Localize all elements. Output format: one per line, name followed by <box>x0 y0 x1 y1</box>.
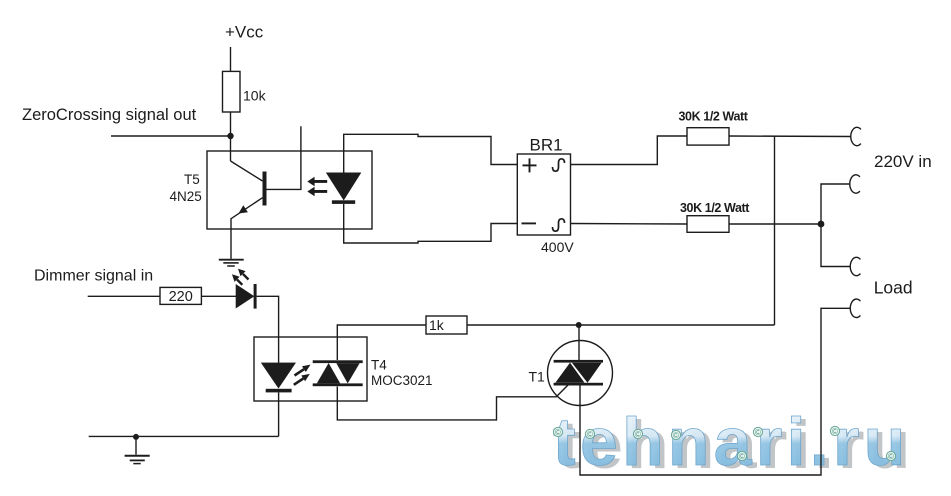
transistor T5 base lead <box>267 126 301 189</box>
bridge BR1 minus sign <box>522 222 537 224</box>
wire BR1 + output <box>571 136 688 165</box>
wire D1 to MOC led <box>257 296 279 363</box>
wire LED anode to bridge + <box>344 134 518 173</box>
wire ground stub <box>135 437 137 455</box>
resistor R 30K bottom body <box>687 216 729 233</box>
svg-text:©: © <box>587 430 593 439</box>
wire T1 gate <box>337 385 568 420</box>
terminal 220V N arc <box>850 175 860 193</box>
svg-text:30K 1/2 Watt: 30K 1/2 Watt <box>680 201 750 215</box>
wire 30K bottom to junction <box>729 223 821 225</box>
svg-text:©: © <box>635 430 641 439</box>
transistor T5 emitter diagonal <box>231 198 263 259</box>
svg-text:ZeroCrossing signal out: ZeroCrossing signal out <box>22 106 197 124</box>
wire T1 anode lead <box>578 325 580 361</box>
junction node at 220V N / 30K <box>818 221 825 228</box>
terminal Load lower arc <box>850 299 860 317</box>
svg-text:BR1: BR1 <box>530 136 563 155</box>
svg-text:T5: T5 <box>184 172 200 187</box>
svg-text:©: © <box>755 428 761 437</box>
wire ground rail bottom <box>89 435 279 437</box>
ground dimmer rail <box>125 456 150 464</box>
wire LED cathode to bridge - <box>344 204 518 243</box>
wire BR1 - output <box>571 223 688 226</box>
bridge BR1 ac squiggle bottom <box>553 219 565 231</box>
resistor R 30K top body <box>687 128 729 145</box>
bridge BR1 plus sign <box>522 158 537 223</box>
svg-text:30K 1/2 Watt: 30K 1/2 Watt <box>679 110 749 124</box>
resistor R 220 body <box>160 287 201 304</box>
wire Load lower to triac T1 <box>580 308 850 475</box>
junction node at ground rail <box>133 434 139 440</box>
bridge rectifier BR1 box <box>517 154 570 235</box>
led D2 cathode bar <box>332 200 355 204</box>
wire tap down to 1k rail <box>774 136 776 325</box>
terminal 220V L arc <box>851 127 861 145</box>
junction node at T1 anode <box>576 322 582 328</box>
svg-text:220V in: 220V in <box>874 152 932 171</box>
light arrow T5 upper <box>307 177 327 196</box>
wire dimmer input <box>88 295 160 297</box>
svg-text:Dimmer signal in: Dimmer signal in <box>34 268 153 285</box>
led D3 in T4 triangle <box>261 363 295 388</box>
wire 220 to diode D1 <box>201 295 236 297</box>
optocoupler U T4 box <box>254 337 367 401</box>
triac in T4 right triangle <box>336 363 359 383</box>
svg-text:©: © <box>673 431 679 440</box>
wire 10k to collector <box>230 112 232 161</box>
triac T1 right triangle <box>572 363 602 383</box>
svg-text:©: © <box>832 427 838 436</box>
transistor T5 base bar <box>263 172 267 206</box>
transistor T5 emitter arrow <box>239 205 248 213</box>
junction node at 10k / zerocross <box>227 133 233 139</box>
wire 1k to MOC triac <box>337 325 426 360</box>
led D2 in T5 triangle <box>326 173 360 200</box>
light arrow T5 lower <box>311 190 327 193</box>
wire 220V N to load rail <box>821 184 850 267</box>
triac T1 bottom bar <box>554 383 603 386</box>
resistor R 1k body <box>426 316 467 334</box>
triac T1 circle <box>548 341 613 406</box>
wire MOC led cathode down <box>278 392 280 436</box>
triac in T4 top bar <box>313 360 363 363</box>
light arrow T4 lower <box>294 379 304 385</box>
svg-text:+Vcc: +Vcc <box>225 23 264 42</box>
led D1 light arrows <box>232 269 249 285</box>
watermark copyright badges <box>553 426 895 460</box>
svg-text:1k: 1k <box>429 317 445 333</box>
svg-text:220: 220 <box>169 289 193 305</box>
svg-text:4N25: 4N25 <box>170 189 202 204</box>
svg-text:tehnari.ru: tehnari.ru <box>553 404 910 480</box>
transistor T5 collector diagonal <box>231 161 263 181</box>
resistor R 10k body <box>223 71 241 112</box>
svg-text:MOC3021: MOC3021 <box>371 373 433 388</box>
terminal Load upper arc <box>850 257 860 275</box>
svg-text:©: © <box>739 452 745 461</box>
wire 1k rail <box>467 324 775 326</box>
ground T5 emitter <box>219 260 244 266</box>
svg-text:©: © <box>555 428 561 437</box>
led D3 cathode bar <box>266 389 292 393</box>
triac in T4 left triangle <box>317 363 340 383</box>
wire +Vcc lead <box>230 47 232 71</box>
svg-text:T1: T1 <box>529 369 546 385</box>
svg-text:T4: T4 <box>371 358 387 373</box>
led D1 cathode bar <box>254 284 257 309</box>
svg-text:400V: 400V <box>541 239 574 255</box>
triac in T4 bottom bar <box>313 383 363 386</box>
svg-text:©: © <box>888 452 894 461</box>
wire ZeroCrossing out <box>111 135 231 137</box>
triac T1 left triangle <box>555 363 584 383</box>
bridge BR1 ac squiggle top <box>553 159 565 171</box>
svg-text:10k: 10k <box>243 88 267 104</box>
triac T1 top bar <box>554 360 603 363</box>
optocoupler U T5 box <box>207 151 372 229</box>
svg-text:Load: Load <box>874 278 913 298</box>
wire 30K top to 220V terminal <box>729 135 851 138</box>
led D1 triangle <box>236 285 254 309</box>
light arrow T4 upper <box>294 365 311 385</box>
